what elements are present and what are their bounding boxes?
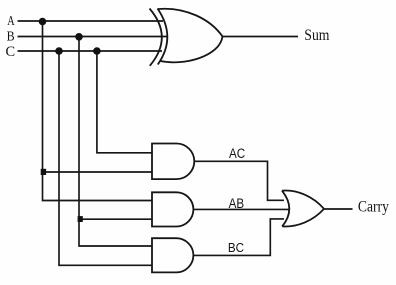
svg-text:B: B [7,30,15,45]
svg-text:BC: BC [228,240,244,255]
svg-text:Sum: Sum [304,27,330,44]
svg-text:AC: AC [229,146,245,161]
svg-text:AB: AB [229,196,245,211]
svg-text:Carry: Carry [358,199,389,216]
svg-text:C: C [6,44,16,60]
svg-text:A: A [7,14,15,29]
